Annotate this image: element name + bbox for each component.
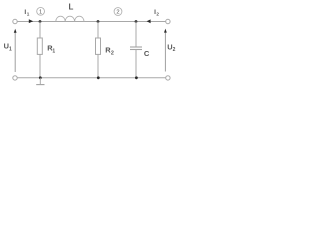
current arrow I1 <box>29 19 33 23</box>
svg-text:2: 2 <box>156 12 159 17</box>
terminal top-left <box>13 19 17 23</box>
svg-text:1: 1 <box>39 9 42 15</box>
voltage arrow U1 <box>14 32 16 72</box>
wire top rail <box>17 21 165 23</box>
svg-text:1: 1 <box>27 12 30 17</box>
junction dot bottom C <box>135 76 138 79</box>
wire C bottom lead <box>135 50 137 78</box>
terminal top-right <box>166 19 170 23</box>
junction dot bottom R2 <box>97 76 100 79</box>
wire bottom rail <box>17 77 165 79</box>
node 2 circle <box>114 8 122 16</box>
wire C top lead <box>135 22 137 47</box>
svg-text:2: 2 <box>116 10 119 16</box>
svg-text:2: 2 <box>173 47 176 53</box>
junction dot top R1 <box>39 20 42 23</box>
wire R1 top lead <box>39 22 41 39</box>
wire R1 bottom lead <box>39 54 41 77</box>
node 1 circle <box>37 7 45 15</box>
junction dot bottom R1 <box>39 76 42 79</box>
junction dot top C <box>135 20 138 23</box>
ground <box>39 78 41 84</box>
terminal bottom-right <box>166 76 170 80</box>
svg-text:L: L <box>69 3 74 12</box>
svg-text:1: 1 <box>9 46 12 52</box>
junction dot top R2 <box>97 20 100 23</box>
svg-text:2: 2 <box>111 50 114 56</box>
resistor R2 <box>96 38 101 54</box>
inductor L <box>56 16 84 21</box>
svg-text:1: 1 <box>52 48 55 54</box>
current arrow I2 <box>147 19 151 23</box>
wire R2 bottom lead <box>97 54 99 77</box>
resistor R1 <box>37 38 42 54</box>
svg-text:C: C <box>144 49 150 58</box>
capacitor C <box>130 46 142 48</box>
voltage arrow U2 <box>164 32 166 72</box>
wire R2 top lead <box>97 22 99 39</box>
terminal bottom-left <box>13 76 17 80</box>
